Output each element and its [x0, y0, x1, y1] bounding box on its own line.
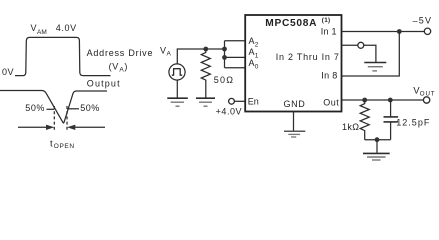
junction bus / A1: [222, 55, 227, 60]
address bus vertical wire: [224, 41, 226, 68]
dashed marker right 50%: [66, 106, 68, 132]
wire to pin A1: [225, 56, 246, 58]
svg-text:Output: Output: [87, 78, 121, 88]
wire to pin A0: [225, 67, 246, 69]
svg-text:–5V: –5V: [413, 15, 433, 25]
pulse source symbol: [172, 69, 182, 76]
resistor R1 50 ohm: [201, 49, 210, 98]
svg-text:Out: Out: [323, 97, 339, 107]
svg-text:V: V: [31, 23, 37, 33]
dashed marker left 50%: [53, 106, 55, 132]
svg-text:OPEN: OPEN: [54, 143, 75, 150]
svg-text:In 1: In 1: [321, 27, 337, 37]
terminal +4.0V: [229, 98, 235, 104]
svg-text:t: t: [50, 138, 53, 149]
ground (IC GND): [284, 131, 305, 137]
connector circle on In2-7 wire: [358, 42, 364, 48]
svg-text:En: En: [248, 97, 259, 107]
tick to left 50% label: [47, 108, 55, 110]
ground (output RC): [363, 153, 390, 160]
tick to right 50% label: [67, 108, 79, 110]
wire circle to ground: [364, 45, 376, 62]
svg-text:OUT: OUT: [420, 90, 436, 97]
svg-text:(1): (1): [322, 17, 331, 24]
junction bus / VA wire: [222, 47, 227, 52]
junction Out/R2: [362, 98, 367, 103]
pulse source V1 circle: [169, 64, 185, 80]
svg-text:1: 1: [255, 52, 259, 59]
terminal -5V: [424, 28, 430, 34]
junction Out/C1: [388, 98, 393, 103]
junction In1/In8: [397, 29, 402, 34]
waveform VA address pulse: [15, 37, 111, 75]
svg-text:50%: 50%: [25, 103, 45, 113]
arrow right of tOPEN: [75, 126, 105, 128]
wire In 1 to -5V terminal: [342, 31, 425, 33]
svg-text:+4.0V: +4.0V: [216, 107, 243, 117]
svg-text:0V: 0V: [2, 67, 14, 77]
wire In 8 tied to In 1: [342, 32, 400, 77]
IC U1 MPC508A body: [245, 15, 341, 112]
svg-text:A: A: [249, 47, 255, 57]
svg-text:1kΩ: 1kΩ: [342, 122, 359, 132]
svg-text:V: V: [160, 45, 166, 55]
wire In 2 thru In 7: [342, 44, 358, 46]
svg-text:50%: 50%: [80, 103, 100, 113]
svg-text:0: 0: [255, 63, 259, 70]
capacitor C1 12.5pF: [390, 100, 392, 117]
resistor R2 1k ohm: [360, 100, 369, 140]
svg-text:): ): [124, 61, 127, 71]
junction at resistor R 50 ohm: [203, 47, 208, 52]
svg-text:In 2 Thru In 7: In 2 Thru In 7: [276, 52, 340, 62]
svg-text:A: A: [167, 51, 172, 58]
waveform output notch: [0, 91, 107, 123]
svg-text:A: A: [249, 58, 255, 68]
svg-text:A: A: [249, 36, 255, 46]
svg-text:AM: AM: [37, 29, 47, 36]
wire Out to VOUT terminal: [342, 99, 424, 101]
svg-text:(V: (V: [109, 61, 119, 71]
wire GND pin to ground: [293, 112, 295, 131]
ground (In 2 thru In 7): [364, 63, 386, 71]
terminal VOUT: [423, 97, 429, 103]
arrow left of tOPEN: [18, 126, 47, 128]
svg-text:50Ω: 50Ω: [214, 75, 234, 85]
wire En terminal: [234, 100, 245, 102]
svg-text:2: 2: [255, 41, 259, 48]
svg-text:4.0V: 4.0V: [56, 23, 77, 33]
ground (50 ohm resistor): [196, 98, 215, 106]
ground (source): [167, 98, 188, 106]
svg-text:GND: GND: [284, 99, 306, 109]
wire source to ground: [176, 80, 178, 98]
wire join to ground: [376, 140, 378, 153]
svg-text:In 8: In 8: [321, 71, 337, 81]
wire to pin A2: [225, 40, 246, 42]
svg-text:12.5pF: 12.5pF: [396, 118, 430, 128]
wire R2/C1 bottom join: [365, 139, 391, 141]
wire VA source to bus: [177, 49, 224, 64]
svg-text:Address Drive: Address Drive: [87, 48, 154, 58]
svg-text:MPC508A: MPC508A: [265, 18, 317, 29]
junction bottom join / ground: [375, 137, 380, 142]
